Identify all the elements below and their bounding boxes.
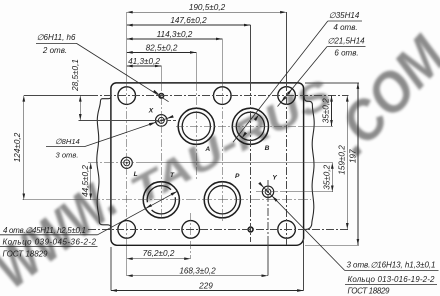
plate outline — [111, 83, 304, 245]
dimension 41,3±0,2 — [127, 65, 162, 67]
centerline L row — [88, 162, 140, 164]
svg-text:190,5±0,2: 190,5±0,2 — [189, 3, 226, 12]
centerline left hole column — [126, 12, 128, 83]
svg-text:28,5±0,1: 28,5±0,1 — [71, 59, 80, 92]
corner hole top-left d21.5 — [118, 87, 136, 105]
svg-text:B: B — [265, 145, 270, 152]
svg-text:L: L — [134, 171, 138, 178]
svg-text:4 отв.∅45H11, h2,5±0,1: 4 отв.∅45H11, h2,5±0,1 — [3, 226, 86, 235]
pin hole d6 top — [159, 94, 164, 99]
svg-text:Кольцо 013-016-19-2-2: Кольцо 013-016-19-2-2 — [348, 275, 436, 284]
centerline top hole row — [24, 95, 90, 97]
svg-text:76,2±0,2: 76,2±0,2 — [143, 249, 175, 258]
svg-text:41,3±0,2: 41,3±0,2 — [128, 57, 160, 66]
extension line left edge to 229 dim — [110, 247, 112, 291]
dimension 159±0,2 — [346, 96, 348, 230]
dimension 190,5±0,2 — [127, 11, 287, 13]
centerline T-P row — [23, 199, 91, 201]
dimension 35±0,2 upper right — [331, 96, 333, 127]
centerlines — [23, 12, 360, 290]
corner hole bottom-right d21.5 — [278, 221, 296, 239]
svg-text:6 отв.: 6 отв. — [334, 49, 358, 58]
centerline P column — [221, 39, 223, 83]
svg-text:∅35H14: ∅35H14 — [329, 11, 360, 20]
dimension 147,6±0,2 — [127, 24, 251, 26]
extension line bottom edge for 197 — [305, 244, 359, 246]
hole mid-top d21.5 — [214, 87, 232, 105]
svg-text:X: X — [148, 107, 154, 114]
left flange with break line — [97, 96, 111, 228]
svg-text:ГОСТ 18829: ГОСТ 18829 — [3, 249, 49, 258]
svg-text:Y: Y — [272, 175, 277, 182]
dimension 76,2±0,2 — [127, 258, 191, 260]
svg-text:35±0,2: 35±0,2 — [323, 164, 332, 189]
svg-text:3 отв.: 3 отв. — [56, 151, 79, 160]
hole T (port, ring groove) — [143, 182, 179, 218]
centerline right hole column — [286, 12, 288, 83]
svg-text:124±0,2: 124±0,2 — [13, 132, 22, 162]
hole X (d8 with d16 ring) — [156, 115, 168, 127]
svg-text:4 отв.: 4 отв. — [333, 23, 357, 32]
dimension 44,5±0,2 — [90, 163, 92, 200]
svg-text:∅21,5H14: ∅21,5H14 — [327, 37, 365, 46]
centerline B column — [249, 25, 251, 83]
corner hole bottom-left d21.5 — [118, 221, 136, 239]
hole B (port, ring groove) — [232, 108, 268, 144]
dimension 124±0,2 — [23, 96, 25, 200]
hole Y (d8 with d16 ring) — [262, 186, 273, 197]
extension line top edge for 197 — [305, 82, 359, 84]
dimension 229 — [111, 290, 304, 292]
svg-text:P: P — [235, 173, 240, 180]
dimension 35±0,2 lower right — [331, 163, 333, 192]
hole A (port, ring groove) — [178, 108, 214, 144]
hole mid-bottom d21.5 — [182, 221, 200, 239]
svg-text:∅8H14: ∅8H14 — [55, 137, 80, 146]
svg-text:229: 229 — [198, 281, 213, 290]
dimension 197 — [357, 83, 359, 245]
svg-text:2 отв.: 2 отв. — [42, 46, 67, 55]
dimension 168,3±0,2 — [127, 275, 268, 277]
svg-text:ГОСТ 18829: ГОСТ 18829 — [348, 286, 391, 295]
centerline A-B row — [176, 125, 300, 127]
extension line right edge to 229 dim — [303, 239, 305, 291]
hole P (port, ring groove) — [204, 182, 240, 218]
dimension 82,5±0,2 — [127, 51, 197, 53]
centerline X-T column — [160, 66, 162, 83]
svg-text:A: A — [204, 146, 210, 153]
centerline mid-bottom hole column — [190, 213, 192, 259]
centerline Y row — [256, 191, 281, 193]
corner hole top-right d21.5 — [278, 87, 296, 105]
centerline bottom hole row — [88, 228, 348, 230]
pin hole d6 bottom — [248, 227, 253, 232]
centerline A column — [195, 52, 197, 83]
centerline Y column — [267, 180, 269, 240]
svg-text:147,6±0,2: 147,6±0,2 — [170, 16, 207, 25]
svg-text:3 отв.∅16H13, h1,3±0,1: 3 отв.∅16H13, h1,3±0,1 — [347, 261, 436, 270]
svg-text:44,5±0,2: 44,5±0,2 — [81, 165, 90, 197]
svg-text:82,5±0,2: 82,5±0,2 — [146, 43, 178, 52]
right flange with break line — [304, 96, 314, 230]
hole L (d8 with d16 ring) — [121, 157, 132, 168]
dimension 114,3±0,2 — [127, 38, 223, 40]
svg-text:168,3±0,2: 168,3±0,2 — [179, 266, 216, 275]
svg-text:114,3±0,2: 114,3±0,2 — [157, 30, 193, 39]
svg-text:197: 197 — [348, 149, 357, 163]
centerline X row — [79, 119, 156, 121]
dimension 28,5±0,1 — [79, 96, 81, 121]
svg-text:159±0,2: 159±0,2 — [338, 145, 347, 175]
svg-text:∅6H11, h6: ∅6H11, h6 — [37, 33, 76, 42]
svg-text:Кольцо 039-045-36-2-2: Кольцо 039-045-36-2-2 — [3, 238, 97, 247]
svg-text:35±0,2: 35±0,2 — [321, 98, 330, 123]
